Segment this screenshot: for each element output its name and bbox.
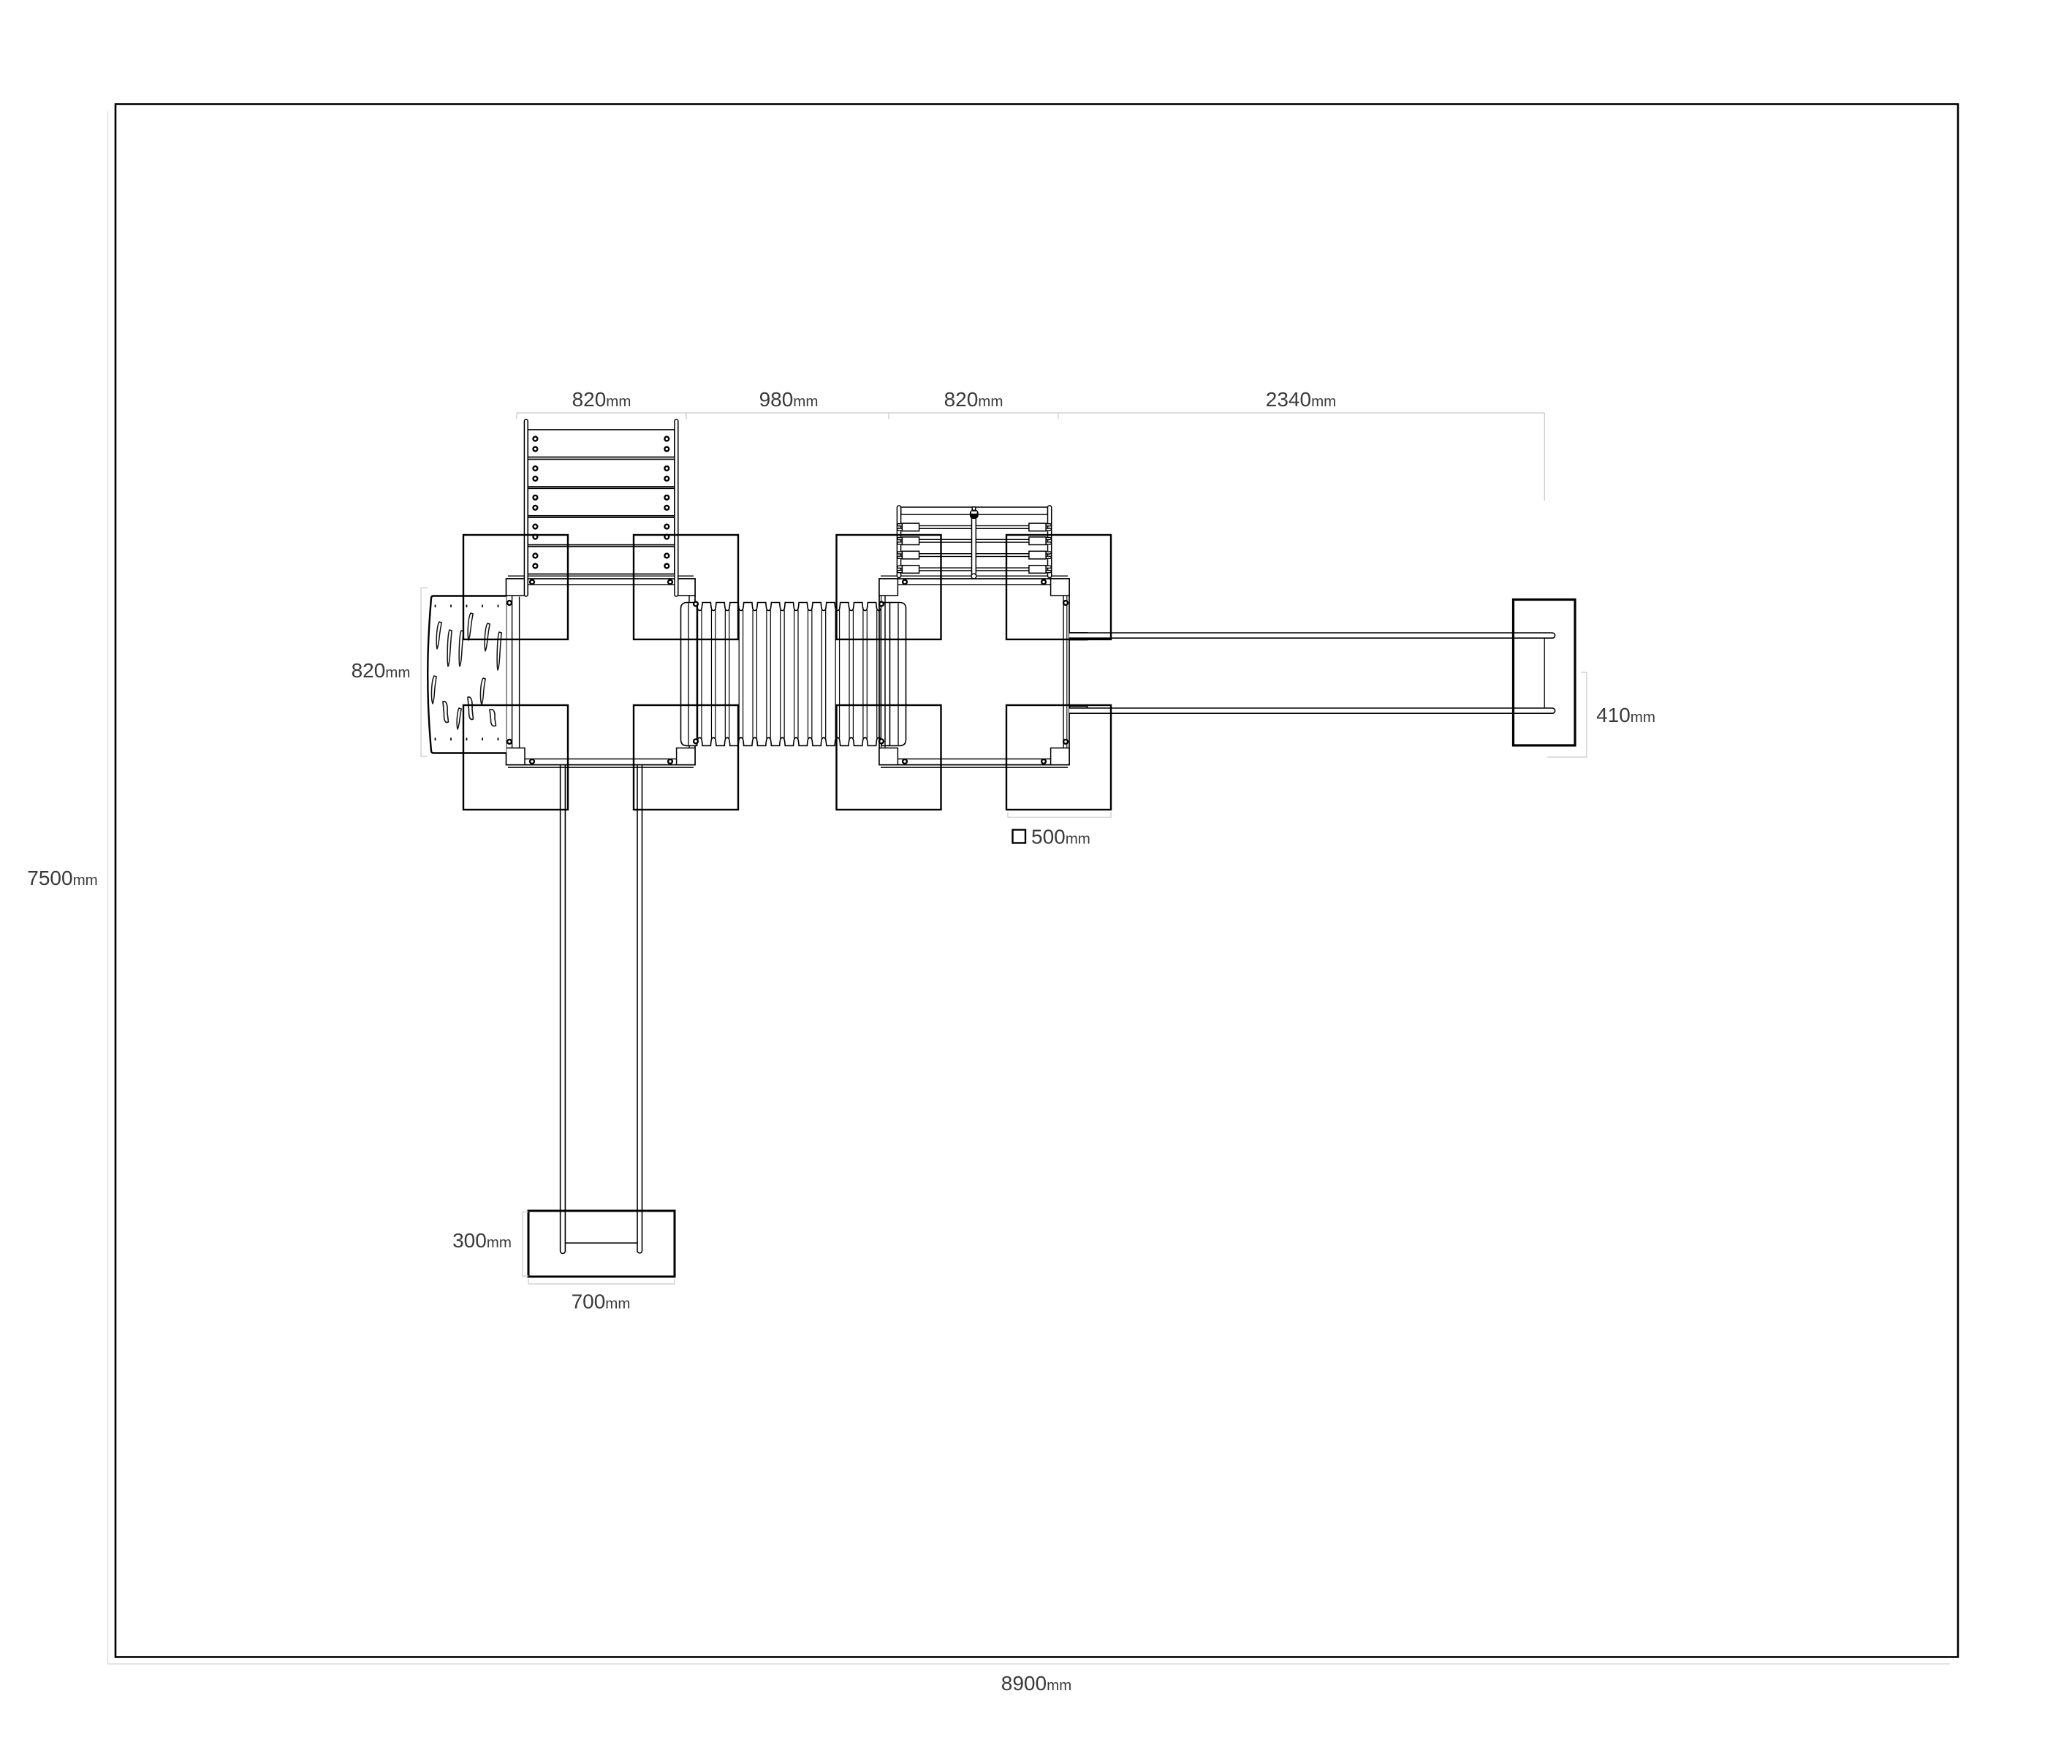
crawl tunnel corrugated body	[698, 610, 881, 739]
left tower pad TR	[634, 535, 738, 639]
top bar mount stub	[1070, 633, 1088, 640]
climbing wall hold cut-outs	[436, 622, 441, 649]
300mm bracket	[523, 1212, 528, 1277]
bar end connector	[1544, 638, 1545, 708]
slide left rail	[561, 765, 566, 1254]
bottom horizontal bar	[1069, 708, 1555, 713]
left tower pad TL	[463, 535, 568, 639]
ladder step screw holes	[534, 437, 538, 441]
top dimension chain line	[517, 413, 1544, 501]
monkey bar left rail	[897, 506, 900, 578]
monkey bar right rail	[1048, 506, 1052, 578]
right tower pad TL	[837, 535, 941, 639]
climbing wall top fixing dots	[435, 604, 436, 607]
slide foot crossbar	[565, 1242, 637, 1244]
left tower platform deck outer outline	[506, 579, 695, 765]
right platform corner post housing TR	[1051, 579, 1069, 596]
right platform corner post housing BL	[879, 748, 898, 765]
right platform deck board lip lines	[881, 575, 1068, 577]
left platform corner post housing BR	[677, 748, 695, 765]
right tower pad BR	[1006, 705, 1111, 810]
monkey bar rung end clamps	[898, 524, 905, 526]
monkey bar top beam	[901, 507, 1048, 514]
right tower platform deck inner outline	[885, 585, 1063, 759]
ladder right side rail	[675, 419, 678, 596]
centre post top clamp	[972, 507, 976, 511]
ladder steps	[528, 430, 675, 457]
bar end footing 410mm	[1514, 600, 1576, 746]
right platform corner post housing TL	[879, 579, 898, 596]
left tower pad BR	[634, 705, 738, 810]
500mm pad bracket	[1008, 812, 1111, 817]
climbing wall batten on platform	[519, 597, 520, 748]
right tower pad TR	[1006, 535, 1111, 639]
platform fixing bolts	[530, 580, 534, 585]
legend square 500mm	[1013, 830, 1026, 843]
700mm bracket	[528, 1279, 675, 1284]
410mm bracket	[1547, 672, 1587, 757]
left tower platform deck inner outline	[512, 585, 689, 759]
left platform corner post housing TR	[677, 579, 695, 596]
slide footing pad 700x300	[528, 1211, 675, 1277]
ladder left side rail	[524, 419, 528, 596]
right tower pad BL	[837, 705, 941, 810]
svg-text:7500mm: 7500mm	[27, 867, 97, 889]
right platform corner post housing BR	[1051, 748, 1069, 765]
monkey bar centre support post	[972, 516, 976, 575]
slide right rail	[637, 765, 642, 1253]
paper shadow (offset gray border)	[108, 111, 1951, 1664]
left tower pad BL	[463, 705, 568, 810]
left platform deck board lip lines	[508, 575, 694, 577]
left platform corner post housing TL	[506, 579, 525, 596]
monkey bar rungs	[910, 526, 1039, 529]
right tower platform deck outer outline	[879, 579, 1069, 765]
tunnel right end flange	[890, 603, 906, 746]
left 820mm dimension bracket	[421, 588, 428, 757]
left platform corner post housing BL	[506, 748, 525, 765]
svg-text:8900mm: 8900mm	[1001, 1672, 1071, 1695]
centre post bottom ball	[971, 574, 976, 579]
top horizontal bar	[1069, 633, 1555, 638]
climbing wall panel	[428, 596, 506, 753]
bottom bar mount stub	[1070, 707, 1088, 714]
tunnel left end flange	[681, 603, 697, 746]
outer border 8900x7500 site boundary	[115, 104, 1958, 1657]
